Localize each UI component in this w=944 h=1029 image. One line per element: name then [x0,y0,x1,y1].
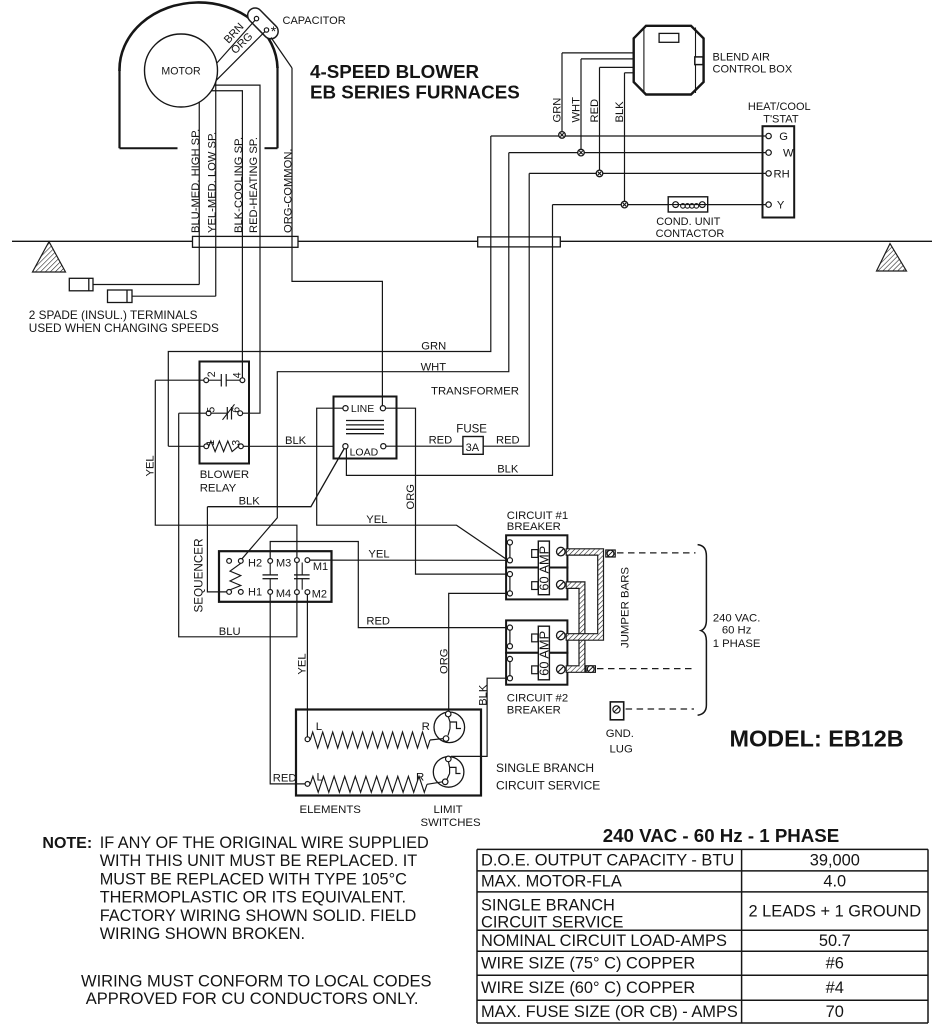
svg-text:R: R [416,771,424,783]
svg-text:2 LEADS + 1 GROUND: 2 LEADS + 1 GROUND [748,902,921,920]
svg-text:YEL-MED. LOW SP.: YEL-MED. LOW SP. [206,132,218,233]
svg-text:BLOWER: BLOWER [200,469,249,481]
svg-text:RED: RED [429,435,453,447]
svg-text:USED WHEN CHANGING SPEEDS: USED WHEN CHANGING SPEEDS [29,321,219,335]
svg-text:3: 3 [231,440,243,446]
svg-text:COND. UNIT: COND. UNIT [656,216,720,228]
svg-text:EB SERIES FURNACES: EB SERIES FURNACES [310,82,520,103]
svg-text:2: 2 [206,371,218,377]
svg-text:TRANSFORMER: TRANSFORMER [431,386,519,398]
svg-text:ORG-COMMON.: ORG-COMMON. [283,148,295,233]
svg-text:WHT: WHT [571,97,583,123]
svg-text:RED: RED [366,616,390,628]
svg-text:THERMOPLASTIC OR ITS EQUIVALEN: THERMOPLASTIC OR ITS EQUIVALENT. [100,889,406,907]
svg-text:ORG: ORG [405,484,417,509]
svg-text:BLK: BLK [497,463,519,475]
svg-text:MODEL: EB12B: MODEL: EB12B [730,726,904,752]
svg-text:RED: RED [589,99,601,123]
svg-text:LUG: LUG [610,743,633,755]
svg-text:NOMINAL CIRCUIT LOAD-AMPS: NOMINAL CIRCUIT LOAD-AMPS [481,932,727,950]
svg-text:D.O.E. OUTPUT CAPACITY - BTU: D.O.E. OUTPUT CAPACITY - BTU [481,851,734,869]
svg-text:JUMPER BARS: JUMPER BARS [619,567,631,648]
svg-text:4-SPEED BLOWER: 4-SPEED BLOWER [310,61,479,82]
svg-text:LINE: LINE [351,403,374,415]
svg-text:Y: Y [777,200,785,212]
svg-text:RED: RED [496,435,520,447]
svg-text:BLK: BLK [239,495,261,507]
svg-text:4.0: 4.0 [823,873,846,891]
svg-text:70: 70 [826,1003,844,1021]
svg-text:M4: M4 [276,588,291,600]
svg-text:MAX. FUSE SIZE (OR CB) - AMPS: MAX. FUSE SIZE (OR CB) - AMPS [481,1003,738,1021]
svg-text:39,000: 39,000 [810,851,860,869]
svg-text:3A: 3A [466,442,480,454]
svg-text:M3: M3 [276,557,291,569]
svg-text:RELAY: RELAY [200,482,237,494]
svg-text:YEL: YEL [366,514,387,526]
svg-text:GRN: GRN [421,341,446,353]
svg-text:240 VAC - 60 Hz - 1 PHASE: 240 VAC - 60 Hz - 1 PHASE [603,825,839,846]
svg-text:NOTE:: NOTE: [42,835,92,852]
svg-text:CIRCUIT SERVICE: CIRCUIT SERVICE [496,778,600,792]
svg-text:FACTORY WIRING SHOWN SOLID. FI: FACTORY WIRING SHOWN SOLID. FIELD [100,907,417,925]
svg-text:*: * [271,23,277,39]
svg-text:BLK: BLK [477,684,489,706]
svg-text:SEQUENCER: SEQUENCER [193,538,206,612]
svg-text:BREAKER: BREAKER [507,705,561,717]
svg-text:L: L [317,771,323,783]
svg-text:BLEND AIR: BLEND AIR [713,52,771,64]
svg-text:60 AMP: 60 AMP [537,631,552,676]
svg-text:BLK-COOLING SP.: BLK-COOLING SP. [233,137,245,233]
svg-text:1 PHASE: 1 PHASE [713,638,761,650]
svg-text:BLU: BLU [219,626,241,638]
svg-text:WIRING MUST CONFORM TO LOCAL C: WIRING MUST CONFORM TO LOCAL CODES [81,972,432,990]
svg-text:BREAKER: BREAKER [507,521,561,533]
svg-text:W: W [783,148,794,160]
svg-text:MUST BE REPLACED WITH TYPE 105: MUST BE REPLACED WITH TYPE 105°C [100,870,407,888]
svg-text:BLK: BLK [285,435,307,447]
svg-text:6: 6 [231,407,243,413]
svg-text:RH: RH [774,168,790,180]
svg-text:#6: #6 [826,955,844,973]
svg-text:LIMIT: LIMIT [434,804,463,816]
svg-text:HEAT/COOL: HEAT/COOL [748,101,811,113]
svg-text:5: 5 [205,407,217,413]
svg-text:M2: M2 [312,588,327,600]
svg-text:H1: H1 [248,587,262,599]
svg-text:WIRE SIZE (60° C) COPPER: WIRE SIZE (60° C) COPPER [481,979,695,997]
svg-text:BLU-MED. HIGH SP.: BLU-MED. HIGH SP. [190,129,202,233]
svg-text:LOAD: LOAD [350,446,379,458]
svg-text:ELEMENTS: ELEMENTS [300,804,362,816]
svg-text:APPROVED FOR CU CONDUCTORS ONL: APPROVED FOR CU CONDUCTORS ONLY. [86,990,419,1008]
svg-text:60 AMP: 60 AMP [537,546,552,591]
svg-text:BLK: BLK [614,101,626,123]
svg-text:YEL: YEL [368,549,389,561]
svg-text:RED-HEATING SP.: RED-HEATING SP. [248,137,260,233]
svg-text:SINGLE BRANCH: SINGLE BRANCH [481,896,615,914]
svg-text:MAX. MOTOR-FLA: MAX. MOTOR-FLA [481,873,622,891]
svg-text:T'STAT: T'STAT [763,113,799,125]
svg-text:YEL: YEL [296,653,308,674]
svg-text:RED: RED [273,772,297,784]
svg-text:#4: #4 [826,979,844,997]
svg-text:CIRCUIT SERVICE: CIRCUIT SERVICE [481,914,623,932]
svg-text:WIRING SHOWN BROKEN.: WIRING SHOWN BROKEN. [100,925,305,943]
svg-text:CONTACTOR: CONTACTOR [656,228,725,240]
svg-text:YEL: YEL [145,455,157,476]
svg-text:SWITCHES: SWITCHES [421,817,482,829]
svg-text:GND.: GND. [606,728,634,740]
svg-text:240 VAC.: 240 VAC. [713,613,761,625]
svg-text:R: R [422,721,430,733]
svg-text:M1: M1 [313,561,328,573]
svg-text:WHT: WHT [421,362,447,374]
svg-text:CIRCUIT #1: CIRCUIT #1 [507,510,568,522]
svg-text:L: L [316,721,322,733]
svg-text:H2: H2 [248,557,262,569]
svg-text:CIRCUIT #2: CIRCUIT #2 [507,693,568,705]
svg-text:MOTOR: MOTOR [161,66,201,78]
svg-text:CAPACITOR: CAPACITOR [283,15,346,27]
svg-text:60 Hz: 60 Hz [722,624,752,636]
svg-text:1: 1 [205,440,217,446]
svg-text:G: G [779,131,788,143]
svg-text:CONTROL BOX: CONTROL BOX [713,64,793,76]
svg-text:ORG: ORG [438,649,450,674]
svg-text:WIRE SIZE (75° C) COPPER: WIRE SIZE (75° C) COPPER [481,955,695,973]
svg-text:SINGLE BRANCH: SINGLE BRANCH [496,761,594,775]
svg-text:WITH THIS UNIT MUST BE REPLACE: WITH THIS UNIT MUST BE REPLACED. IT [100,852,418,870]
svg-text:FUSE: FUSE [456,423,487,435]
svg-text:50.7: 50.7 [819,932,851,950]
svg-text:IF ANY OF THE ORIGINAL WIRE SU: IF ANY OF THE ORIGINAL WIRE SUPPLIED [100,834,429,852]
svg-text:GRN: GRN [552,98,564,123]
svg-text:4: 4 [231,372,243,378]
